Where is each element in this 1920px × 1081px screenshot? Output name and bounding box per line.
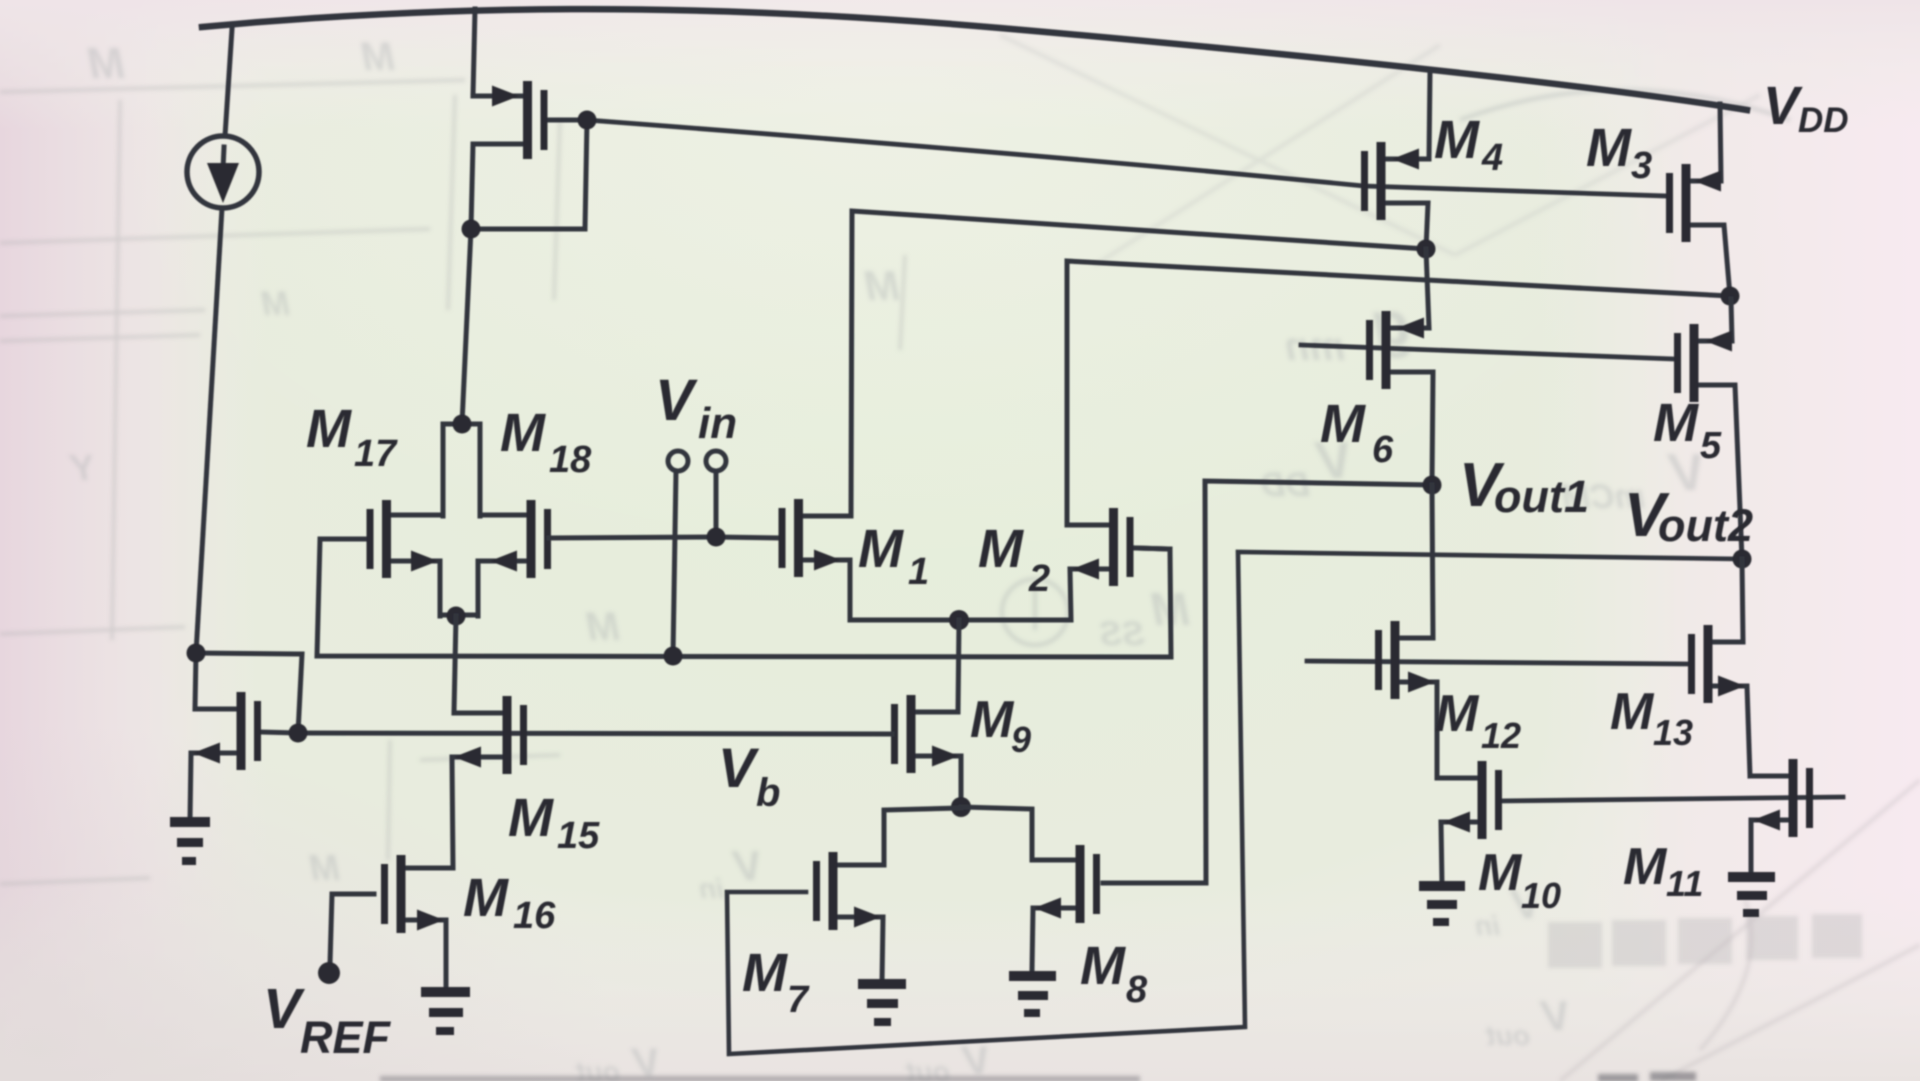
svg-text:M: M [87, 39, 125, 88]
svg-text:2: 2 [1028, 558, 1050, 600]
svg-text:in: in [698, 399, 737, 448]
svg-text:V: V [655, 368, 698, 433]
svg-text:7: 7 [787, 979, 810, 1021]
wire M10 M11 gate line [1498, 797, 1843, 801]
transistor M2 [959, 261, 1730, 620]
svg-text:17: 17 [354, 433, 398, 475]
wire M18 gate to M1 gate through Vin junction [549, 537, 780, 538]
transistor M16 [330, 855, 453, 991]
svg-text:V: V [630, 1041, 660, 1081]
transistor M6 [1366, 249, 1433, 485]
svg-text:13: 13 [1653, 712, 1693, 753]
wire Vin+ stem [714, 471, 719, 537]
photo shadow at bottom edge [380, 1076, 1140, 1081]
wire mirror drain down to M17/M18 [462, 229, 471, 424]
faint ruled lines from reverse page [0, 80, 905, 884]
transistor M4 [1361, 72, 1430, 249]
wire M17/18 node down to M15 drain [454, 616, 456, 713]
terminal VREF dot [318, 962, 340, 984]
transistor M12 [1375, 485, 1437, 778]
ground M8 [1009, 971, 1056, 1017]
svg-text:DD: DD [1798, 101, 1849, 140]
svg-text:6: 6 [1372, 429, 1394, 471]
transistor M18 [478, 500, 551, 616]
svg-text:12: 12 [1481, 715, 1521, 756]
node K M4 drain dot [1417, 240, 1436, 259]
svg-text:in: in [699, 873, 724, 904]
svg-text:M: M [309, 847, 340, 888]
svg-text:REF: REF [300, 1012, 392, 1063]
svg-text:18: 18 [549, 439, 592, 481]
svg-text:M: M [1586, 118, 1632, 178]
svg-text:out1: out1 [1494, 471, 1589, 522]
svg-text:M: M [1320, 394, 1366, 454]
svg-text:M: M [1653, 393, 1699, 453]
node H M9 source dot [951, 797, 971, 817]
transistor M7 [727, 552, 1742, 1054]
wire long gate line mirror to M4 M3 gates [587, 120, 1666, 196]
transistor M5 [1674, 299, 1742, 559]
transistor M8 [961, 481, 1432, 971]
node M Vout1 dot [1423, 476, 1442, 495]
svg-text:out: out [1485, 1020, 1530, 1051]
svg-text:M: M [864, 262, 900, 309]
wire Mb diode loop [196, 653, 302, 733]
svg-text:M: M [1623, 838, 1668, 896]
svg-text:3: 3 [1631, 145, 1652, 187]
svg-text:M: M [1080, 936, 1126, 996]
node D M17/M18 bottom dot [447, 607, 466, 626]
svg-text:9: 9 [1011, 719, 1031, 760]
transistor M15 [452, 696, 527, 868]
svg-text:M: M [1434, 110, 1480, 170]
node J Vb junction dot [289, 724, 308, 743]
svg-text:M: M [360, 35, 395, 79]
svg-text:M: M [742, 943, 788, 1003]
svg-text:16: 16 [513, 895, 556, 937]
ground M11 [1728, 872, 1775, 917]
transistor Mm top-left mirror PMOS [471, 81, 587, 229]
svg-text:M: M [970, 691, 1015, 749]
faint current source circle bleed [1002, 90, 1790, 645]
svg-text:M: M [261, 285, 290, 323]
svg-text:M: M [978, 519, 1024, 579]
svg-text:b: b [756, 771, 780, 815]
svg-text:8: 8 [1126, 969, 1148, 1011]
ground Mb [170, 817, 210, 865]
svg-text:M: M [1478, 844, 1523, 902]
transistor M11 [1750, 759, 1813, 876]
node G tail dot [949, 610, 969, 630]
node L M3 drain dot [1721, 287, 1740, 306]
transistor M3 [1666, 104, 1730, 296]
transistor M13 [1688, 559, 1750, 776]
svg-text:11: 11 [1666, 863, 1703, 904]
svg-text:10: 10 [1521, 875, 1561, 916]
node I left rail dot [187, 644, 206, 663]
svg-text:M: M [1435, 685, 1480, 743]
svg-text:15: 15 [557, 815, 600, 857]
svg-text:M: M [585, 605, 620, 649]
wire M6 M5 gate bias stub [1301, 345, 1675, 359]
faint diagonals bottom right [1560, 780, 1920, 1081]
wire M12 M13 gate stub [1307, 661, 1688, 664]
svg-text:V: V [1539, 992, 1570, 1039]
ground M7 [858, 979, 906, 1026]
node F Vin+ on gate line [707, 528, 726, 547]
ground M16 [421, 987, 470, 1035]
svg-text:Y: Y [68, 447, 95, 488]
faint diagonals top centre [1000, 35, 1760, 265]
transistor M9 [891, 620, 961, 807]
node N Vout2 dot [1733, 550, 1752, 569]
terminal Vin circles [668, 451, 688, 471]
svg-text:M: M [500, 403, 546, 463]
transistor Mb left diode NMOS [190, 653, 298, 821]
svg-text:M: M [1610, 683, 1655, 741]
node B mirror drain dot [462, 220, 481, 239]
svg-text:V: V [263, 977, 305, 1041]
node C M17/M18 top dot [453, 415, 472, 434]
transistor M1 [779, 211, 1427, 620]
svg-text:5: 5 [1700, 425, 1722, 467]
svg-text:V: V [731, 842, 762, 889]
wire M17 gate / CM bias line / M2 gate [317, 539, 1171, 657]
current source I1 [187, 29, 259, 653]
transistor M10 [1437, 761, 1502, 885]
svg-text:4: 4 [1481, 137, 1503, 179]
wire rail tap to mirror PMOS [473, 9, 475, 96]
svg-text:V: V [1763, 76, 1803, 136]
svg-text:SS: SS [1099, 615, 1145, 653]
svg-text:M: M [508, 788, 554, 848]
wire Vb line to M9 gate [298, 733, 892, 734]
svg-text:V: V [960, 1039, 990, 1081]
wire Vin- stem [673, 471, 676, 656]
svg-text:M: M [306, 399, 352, 459]
node E Vin- on bias line [664, 647, 683, 666]
wire VDD top rail [202, 9, 1747, 110]
svg-text:M: M [463, 868, 509, 928]
node A mirror gate dot [578, 111, 597, 130]
blurred character blocks right [1548, 914, 1862, 968]
svg-text:1: 1 [908, 551, 929, 593]
transistor M17 [367, 424, 481, 616]
svg-text:in: in [1475, 910, 1500, 941]
svg-text:M: M [858, 519, 904, 579]
svg-text:out2: out2 [1658, 500, 1753, 551]
svg-text:V: V [718, 736, 760, 799]
wire diode loop of mirror [471, 120, 587, 229]
ground M10 [1419, 881, 1465, 926]
